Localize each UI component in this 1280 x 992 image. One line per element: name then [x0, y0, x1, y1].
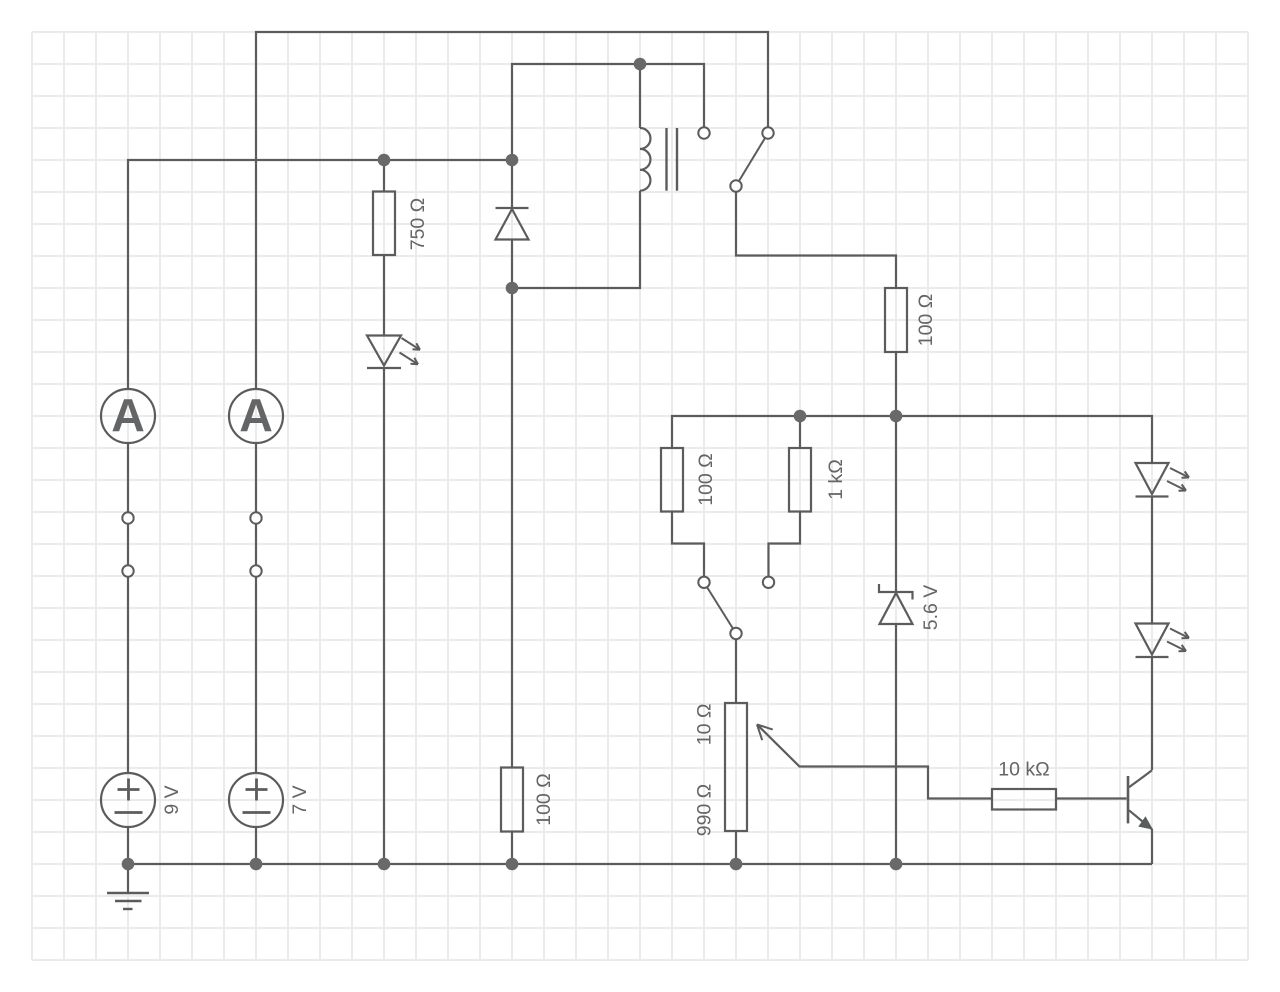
junction: node bus zener	[890, 410, 903, 423]
switch SW2 (SPDT)	[698, 577, 774, 640]
wire: potentiometer bottom to ground rail	[735, 831, 737, 864]
svg-text:1 kΩ: 1 kΩ	[825, 459, 847, 500]
wire: bottom ground rail	[128, 863, 1152, 865]
junction: ground rail at zener	[890, 858, 903, 871]
svg-text:10 kΩ: 10 kΩ	[998, 758, 1049, 780]
wire: battery BT2 bottom to ground rail	[255, 827, 257, 864]
wire: 1kΩ resistor R4 top lead	[799, 416, 801, 448]
transistor Q1 (NPN)	[1128, 770, 1152, 829]
wire: top net from battery BT2 to switch SW1 upper-right terminal	[256, 32, 768, 389]
svg-text:9 V: 9 V	[161, 785, 183, 814]
svg-text:5.6 V: 5.6 V	[920, 585, 942, 631]
resistor R3 100Ω	[661, 448, 683, 512]
wire: resistor R4 bottom to switch SW2 right terminal	[769, 512, 801, 578]
voltage source BT1 9V	[101, 773, 155, 827]
wire: resistor R3 bottom to switch SW2 left terminal	[672, 512, 704, 578]
wire: zener D2 cathode up to middle bus	[895, 416, 897, 592]
svg-text:A: A	[111, 389, 145, 441]
wire: inductor L1 top lead	[639, 64, 641, 128]
potentiometer POT1 body	[725, 703, 747, 831]
wire: ammeter AM1 bottom to battery BT1 top	[127, 443, 129, 773]
ground	[107, 893, 149, 909]
label POT1 upper section 10 Ω	[694, 704, 716, 746]
label R1 value 750 Ω	[407, 198, 429, 251]
junction: node bus R4	[794, 410, 807, 423]
wire: ammeter AM2 bottom to battery BT2 top	[255, 443, 257, 773]
wire: switch SW2 common down to potentiometer POT1	[735, 639, 737, 703]
label R5 value 100 Ω	[533, 773, 555, 826]
svg-text:A: A	[239, 389, 273, 441]
label POT1 lower section 990 Ω	[694, 784, 716, 837]
junction: ground rail at BT2	[250, 858, 263, 871]
terminal posts on AM2 branch	[250, 512, 261, 576]
svg-text:10 Ω: 10 Ω	[694, 704, 716, 746]
wire: node at 750Ω resistor top	[383, 160, 385, 192]
junction: node inductor top	[634, 58, 647, 71]
label R4 value 1 kΩ	[825, 459, 847, 500]
wire: diode D1 anode down to 100Ω resistor R5	[511, 240, 513, 768]
terminal posts on AM1 branch	[122, 512, 133, 576]
junction: node 750Ω top	[378, 154, 391, 167]
junction: node diode top	[506, 154, 519, 167]
wire: LED2 cathode to LED3 anode	[1151, 497, 1153, 624]
label BT1 value 9 V	[161, 785, 183, 814]
wire: middle horizontal bus	[672, 416, 1152, 463]
junction: ground rail at POT1	[730, 858, 743, 871]
switch SW1 (SPDT)	[698, 127, 773, 191]
wire: switch SW1 common down and right to resistor R2	[736, 192, 896, 288]
wire: ground stub below BT1	[127, 864, 129, 893]
zener diode D2 5.6V	[879, 584, 913, 624]
wire: vertical net x=512 from upper corner through diode D1	[512, 64, 704, 208]
wire: resistor R5 bottom to ground rail	[511, 832, 513, 865]
junction: ground rail at LED1	[378, 858, 391, 871]
wire: Q1 emitter down to ground rail	[1151, 829, 1153, 864]
wire: battery BT1 bottom to ground rail	[127, 827, 129, 864]
label BT2 value 7 V	[289, 785, 311, 814]
wire: 750Ω resistor bottom to LED1 anode	[383, 255, 385, 336]
label R3 value 100 Ω	[695, 453, 717, 506]
voltage source BT2 7V	[229, 773, 283, 827]
svg-text:100 Ω: 100 Ω	[915, 294, 937, 347]
resistor R6 10kΩ	[992, 789, 1056, 810]
resistor R2 100Ω	[885, 288, 907, 352]
diode D1	[496, 208, 529, 240]
wire: resistor R2 bottom to middle bus	[895, 352, 897, 416]
resistor R4 1kΩ	[789, 448, 811, 512]
svg-text:990 Ω: 990 Ω	[694, 784, 716, 837]
svg-text:750 Ω: 750 Ω	[407, 198, 429, 251]
wire: LED3 cathode down to Q1 collector	[1151, 657, 1153, 770]
svg-text:7 V: 7 V	[289, 785, 311, 814]
svg-text:100 Ω: 100 Ω	[533, 773, 555, 826]
wire: zener D2 anode down to ground rail	[895, 624, 897, 864]
junction: ground rail at R5	[506, 858, 519, 871]
wire: inductor L1 bottom lead to diode node	[512, 191, 640, 288]
wire: potentiometer wiper to base resistor R6	[757, 725, 992, 799]
junction: node diode anode / inductor	[506, 282, 519, 295]
svg-text:100 Ω: 100 Ω	[695, 453, 717, 506]
label R2 value 100 Ω	[915, 294, 937, 347]
wire: net from battery BT1 up and right to diode column	[128, 160, 512, 389]
resistor R5 100Ω	[501, 768, 523, 832]
potentiometer wiper arrow	[757, 725, 773, 741]
label D2 value 5.6 V	[920, 585, 942, 631]
ammeter AM1	[101, 389, 155, 443]
junction: ground rail at BT1	[122, 858, 135, 871]
inductor L1 with iron core	[640, 128, 677, 191]
wire: LED1 cathode down to ground rail	[383, 368, 385, 864]
resistor R1 750Ω	[373, 192, 395, 256]
ammeter AM2	[229, 389, 283, 443]
LED LED3	[1136, 624, 1190, 658]
wire: resistor R6 to transistor Q1 base	[1056, 797, 1127, 799]
LED LED1	[367, 336, 420, 369]
LED LED2	[1136, 463, 1190, 497]
label R6 value 10 kΩ	[998, 758, 1049, 780]
